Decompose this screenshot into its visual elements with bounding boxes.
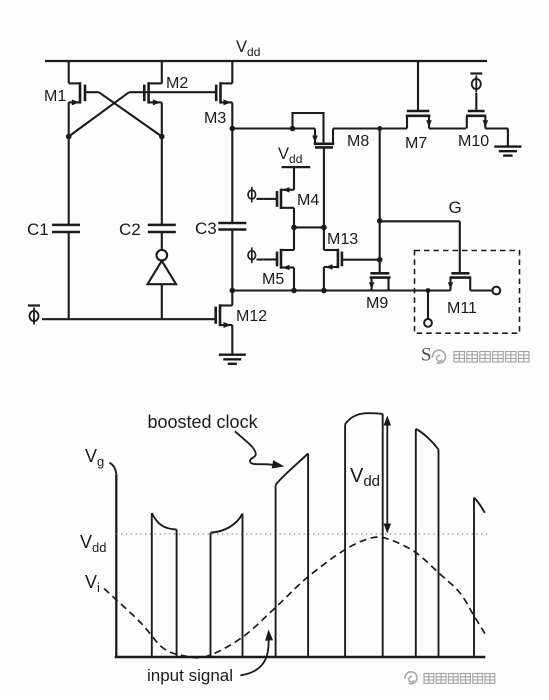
clock pulse 5 [415,429,417,657]
clock pulse 6 (partial) [473,498,475,657]
watermark text (circuit) [454,352,465,363]
wire cross-couple A [99,92,162,136]
node M2 bottom [159,134,165,140]
node M5 source [291,288,297,294]
svg-text:C2: C2 [119,220,141,239]
node boost line [377,126,382,131]
watermark text (bottom) [424,674,434,684]
svg-text:G: G [449,198,462,217]
Vdd dotted level line [116,533,489,535]
capacitor C1 [68,137,70,225]
svg-text:M8: M8 [347,133,369,150]
terminal S stub [427,291,429,319]
svg-text:C3: C3 [195,219,217,238]
node M8 gate [321,225,327,231]
svg-text:M7: M7 [405,135,427,152]
node C3 top wire [230,126,236,132]
svg-text:C1: C1 [27,220,49,239]
svg-text:M9: M9 [366,295,388,312]
transistor M1 [68,61,70,83]
node S branch [426,288,431,293]
wire source line [232,289,450,291]
node M12 drain [230,288,236,294]
node M8 left [290,126,296,132]
svg-text:input signal: input signal [147,666,233,685]
wire M7 to M10 [429,127,466,129]
svg-text:boosted clock: boosted clock [148,412,259,432]
wire to node G [380,220,460,222]
svg-text:Vdd: Vdd [80,532,106,555]
clock pulse 4 (boosted) [344,424,346,657]
wire node B to M8 [232,127,315,129]
phi (M4 gate) [248,190,256,199]
terminal D [492,287,500,295]
transistor M12 [231,291,233,306]
node M4/M5 [291,225,297,231]
svg-text:M13: M13 [327,231,358,248]
transistor M4 [282,189,294,191]
watermark logo (circuit) [432,350,445,363]
svg-text:Vi: Vi [85,572,100,595]
svg-text:Vg: Vg [85,446,104,469]
watermark logo (bottom) [405,672,417,684]
transistor M8 [293,113,324,143]
phi (M5 gate) [248,251,256,260]
Vdd measure arrow [386,419,388,531]
transistor M11 [451,272,469,275]
transistor M10 [468,110,485,113]
boosted clock arrow [235,431,273,465]
node M13 gate branch [377,257,383,263]
svg-text:Vdd: Vdd [278,145,302,166]
Vdd power rail [45,60,487,62]
wire M8 to M7 [333,127,407,129]
node M13 source [321,288,327,294]
svg-text:M10: M10 [458,133,489,150]
ground (M12) [219,354,246,356]
svg-text:Vdd: Vdd [236,38,260,59]
clock pulse 3 [275,485,277,657]
clock pulse 2 [210,533,212,657]
node G branch [377,218,383,224]
transistor M9 [370,272,389,275]
svg-text:Vdd: Vdd [350,465,380,490]
waveform y-axis [109,463,116,475]
wire M2/M3 gate [129,91,216,93]
phi-bar input [30,311,39,321]
ground (M10) [494,145,521,147]
wire M4 node to M8 gate [294,226,324,228]
svg-text:M5: M5 [262,271,284,288]
clock pulse 1 [151,513,153,657]
svg-text:M1: M1 [44,88,66,105]
inverter (C2 driver) [157,250,168,261]
node M1 bottom [66,134,72,140]
transistor M13 [324,249,338,251]
svg-text:M12: M12 [236,308,267,325]
capacitor C3 [218,222,246,225]
wire boost node vertical [379,129,381,274]
transistor M3 [231,61,233,83]
dashed box (switch) [415,251,520,334]
capacitor C2 [161,137,163,225]
input signal arrow [240,634,268,675]
svg-text:M4: M4 [297,192,319,209]
input signal sinusoid (dashed) [104,537,487,658]
phi-bar (M10 gate) [472,79,481,89]
svg-text:M11: M11 [447,300,477,317]
transistor M2 [161,61,163,83]
svg-text:M3: M3 [204,110,226,127]
svg-text:S: S [421,345,432,366]
wire cross-couple B [69,92,129,136]
transistor M5 [293,227,295,250]
svg-text:M2: M2 [166,75,188,92]
waveform x-axis (baseline) [115,656,486,659]
transistor M7 [417,61,419,111]
